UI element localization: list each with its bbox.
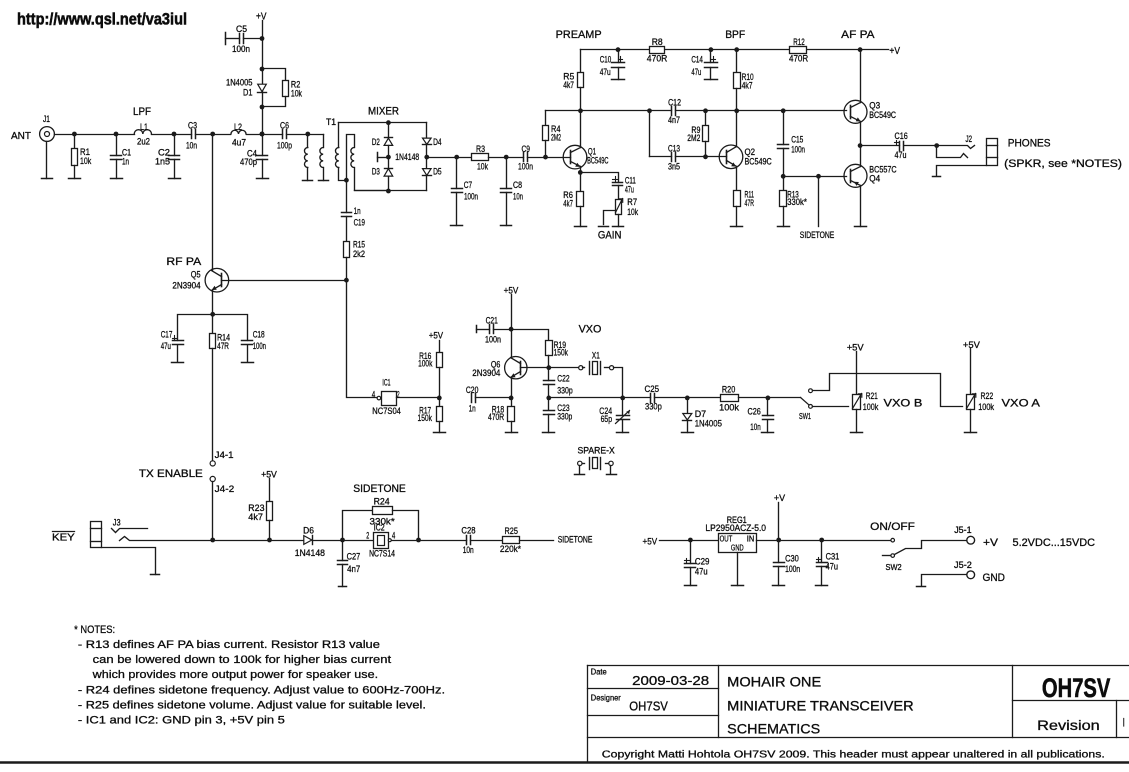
svg-text:D6: D6 [303, 525, 314, 536]
svg-text:4u7: 4u7 [232, 138, 246, 149]
svg-text:C5: C5 [236, 24, 247, 35]
svg-text:4: 4 [392, 531, 395, 542]
svg-text:J1: J1 [43, 114, 50, 125]
svg-text:C16: C16 [895, 131, 908, 142]
svg-text:C7: C7 [464, 180, 472, 191]
svg-text:R24: R24 [374, 496, 390, 507]
svg-text:4n7: 4n7 [347, 564, 360, 575]
svg-text:C18: C18 [253, 330, 265, 341]
svg-text:1N4148: 1N4148 [295, 548, 325, 559]
svg-text:SPARE-X: SPARE-X [578, 445, 615, 455]
svg-text:100n: 100n [232, 44, 250, 55]
svg-text:2: 2 [366, 531, 369, 542]
svg-text:47u: 47u [895, 150, 907, 161]
svg-text:2N3904: 2N3904 [172, 280, 200, 291]
svg-text:MIXER: MIXER [368, 106, 399, 118]
svg-text:C17: C17 [161, 330, 173, 341]
svg-text:C12: C12 [668, 98, 681, 109]
svg-text:J2: J2 [966, 134, 973, 145]
svg-text:10n: 10n [513, 192, 523, 203]
svg-text:C6: C6 [280, 121, 289, 132]
svg-text:can be lowered down to 100k fo: can be lowered down to 100k for higher b… [93, 654, 392, 666]
svg-text:IC1: IC1 [382, 378, 390, 389]
svg-text:47u: 47u [161, 341, 171, 352]
svg-text:C9: C9 [522, 144, 531, 155]
svg-text:VXO B: VXO B [884, 398, 923, 410]
svg-text:C22: C22 [557, 374, 569, 385]
svg-text:Designer: Designer [591, 693, 621, 702]
svg-text:C30: C30 [785, 553, 799, 564]
svg-text:10k: 10k [80, 156, 91, 167]
svg-text:L2: L2 [234, 122, 242, 133]
svg-text:J5-1: J5-1 [954, 525, 971, 536]
svg-text:OH7SV: OH7SV [1042, 673, 1111, 703]
svg-text:VXO: VXO [579, 324, 602, 336]
svg-text:C10: C10 [600, 54, 612, 65]
svg-text:10k: 10k [627, 207, 638, 218]
svg-text:PREAMP: PREAMP [556, 29, 602, 41]
svg-text:KEY: KEY [52, 532, 75, 543]
svg-text:D5: D5 [433, 167, 442, 178]
svg-text:AF PA: AF PA [841, 29, 875, 41]
svg-text:C3: C3 [188, 121, 197, 132]
svg-text:D3: D3 [372, 167, 380, 178]
svg-text:BC549C: BC549C [587, 156, 608, 167]
svg-text:Date: Date [591, 668, 607, 677]
svg-text:NC7S14: NC7S14 [369, 548, 395, 559]
svg-text:100n: 100n [253, 341, 266, 352]
svg-text:2M2: 2M2 [551, 133, 561, 144]
svg-text:47u: 47u [695, 566, 708, 577]
svg-text:470p: 470p [240, 157, 257, 168]
svg-text:C19: C19 [354, 217, 365, 228]
svg-text:BPF: BPF [725, 29, 745, 41]
svg-text:SIDETONE: SIDETONE [800, 230, 835, 241]
svg-text:4k7: 4k7 [563, 80, 574, 91]
svg-text:J3: J3 [113, 517, 121, 528]
svg-text:Copyright Matti Hohtola OH7SV: Copyright Matti Hohtola OH7SV 2009. This… [602, 749, 1105, 761]
svg-text:GAIN: GAIN [598, 230, 622, 242]
svg-text:100n: 100n [485, 334, 501, 345]
svg-text:330k*: 330k* [787, 197, 807, 208]
svg-text:47u: 47u [691, 67, 701, 78]
svg-text:* NOTES:: * NOTES: [74, 624, 115, 636]
svg-text:1n: 1n [354, 206, 361, 217]
svg-text:+5V: +5V [504, 285, 519, 296]
svg-text:+V: +V [774, 493, 786, 504]
svg-text:LP2950ACZ-5.0: LP2950ACZ-5.0 [705, 523, 766, 534]
svg-text:IN: IN [747, 534, 754, 544]
svg-text:SIDETONE: SIDETONE [558, 535, 593, 546]
svg-text:C27: C27 [347, 552, 361, 562]
svg-text:100p: 100p [277, 141, 292, 152]
svg-text:OH7SV: OH7SV [629, 700, 668, 714]
svg-text:- R13 defines AF PA bias curre: - R13 defines AF PA bias current. Resist… [78, 639, 380, 651]
svg-text:C21: C21 [486, 315, 498, 326]
svg-text:47u: 47u [600, 67, 611, 78]
svg-text:47R: 47R [217, 341, 229, 352]
svg-text:D4: D4 [433, 137, 442, 148]
svg-text:65p: 65p [601, 414, 613, 425]
svg-text:R3: R3 [476, 144, 485, 155]
svg-text:C14: C14 [691, 54, 703, 65]
svg-text:3n5: 3n5 [668, 162, 680, 173]
svg-text:C20: C20 [466, 385, 479, 396]
svg-text:(SPKR, see *NOTES): (SPKR, see *NOTES) [1004, 158, 1122, 170]
svg-text:1n: 1n [122, 157, 129, 168]
svg-text:1N4148: 1N4148 [395, 152, 419, 163]
svg-text:SW1: SW1 [799, 411, 811, 421]
svg-text:1n5: 1n5 [155, 157, 170, 168]
svg-text:47R: 47R [745, 198, 755, 209]
svg-text:R8: R8 [652, 37, 663, 48]
svg-text:2u2: 2u2 [137, 137, 150, 148]
svg-text:J4-2: J4-2 [215, 484, 235, 495]
svg-text:Revision: Revision [1037, 717, 1100, 733]
svg-text:2: 2 [397, 390, 400, 401]
svg-text:ON/OFF: ON/OFF [870, 521, 915, 533]
svg-text:C28: C28 [461, 525, 475, 536]
svg-text:150k: 150k [418, 413, 433, 424]
svg-text:10n: 10n [750, 422, 761, 433]
svg-text:150k: 150k [554, 347, 569, 358]
svg-text:100n: 100n [518, 162, 533, 173]
svg-text:220k*: 220k* [500, 544, 521, 555]
svg-text:47u: 47u [826, 561, 838, 572]
svg-text:470R: 470R [488, 412, 504, 423]
svg-text:GND: GND [731, 542, 744, 552]
svg-text:+V: +V [983, 537, 999, 549]
svg-text:2k2: 2k2 [353, 249, 365, 260]
svg-text:470R: 470R [789, 54, 808, 65]
svg-text:C25: C25 [645, 384, 660, 395]
svg-text:+5V: +5V [963, 340, 981, 351]
svg-text:330p: 330p [645, 402, 662, 413]
svg-text:SIDETONE: SIDETONE [353, 483, 406, 495]
svg-text:10k: 10k [291, 89, 302, 100]
svg-text:MOHAIR ONE: MOHAIR ONE [727, 675, 821, 690]
svg-text:10k: 10k [477, 162, 488, 173]
svg-text:R22: R22 [981, 391, 994, 402]
svg-text:ANT: ANT [11, 130, 32, 142]
svg-text:J5-2: J5-2 [954, 560, 972, 571]
svg-text:TX ENABLE: TX ENABLE [139, 468, 203, 480]
svg-text:D1: D1 [243, 88, 253, 99]
svg-text:GND: GND [983, 572, 1006, 584]
svg-text:+5V: +5V [643, 537, 658, 548]
svg-text:+V: +V [889, 46, 900, 57]
svg-text:5.2VDC...15VDC: 5.2VDC...15VDC [1013, 537, 1096, 549]
svg-text:1N4005: 1N4005 [695, 418, 722, 429]
svg-text:C8: C8 [513, 180, 522, 191]
svg-text:100k: 100k [978, 402, 994, 413]
svg-text:VXO A: VXO A [1002, 398, 1041, 410]
svg-text:330p: 330p [557, 411, 572, 422]
svg-text:100k: 100k [719, 402, 739, 413]
svg-text:which provides more output pow: which provides more output power for spe… [92, 669, 379, 681]
svg-text:R20: R20 [722, 384, 735, 395]
svg-text:PHONES: PHONES [1008, 138, 1051, 150]
svg-text:2N3904: 2N3904 [472, 368, 500, 379]
svg-text:SW2: SW2 [886, 562, 902, 572]
svg-text:+5V: +5V [429, 331, 444, 342]
svg-text:100n: 100n [464, 192, 478, 203]
svg-text:J4-1: J4-1 [215, 450, 234, 461]
svg-text:- R25 defines sidetone volume.: - R25 defines sidetone volume. Adjust va… [78, 699, 426, 711]
svg-text:MINIATURE TRANSCEIVER: MINIATURE TRANSCEIVER [727, 699, 914, 714]
svg-text:10n: 10n [463, 545, 474, 556]
svg-text:1n: 1n [469, 404, 476, 415]
svg-text:L1: L1 [140, 122, 148, 133]
svg-text:X1: X1 [592, 350, 600, 361]
svg-text:R12: R12 [793, 37, 805, 48]
svg-text:100k: 100k [418, 358, 432, 369]
svg-text:2009-03-28: 2009-03-28 [632, 674, 709, 688]
svg-text:BC549C: BC549C [869, 110, 896, 121]
svg-text:D2: D2 [372, 137, 380, 148]
svg-text:C13: C13 [668, 144, 680, 155]
svg-text:4k7: 4k7 [742, 81, 753, 92]
svg-text:47u: 47u [625, 184, 634, 195]
svg-text:100n: 100n [791, 144, 805, 155]
svg-text:10n: 10n [186, 141, 197, 152]
svg-text:NC7S04: NC7S04 [372, 406, 401, 417]
svg-text:Q4: Q4 [869, 174, 880, 185]
svg-text:R21: R21 [866, 391, 878, 402]
svg-text:C26: C26 [748, 407, 761, 418]
svg-text:SCHEMATICS: SCHEMATICS [727, 721, 820, 736]
svg-text:Q5: Q5 [191, 269, 201, 280]
svg-text:T1: T1 [326, 117, 336, 128]
svg-text:BC549C: BC549C [745, 156, 772, 167]
svg-text:R25: R25 [505, 526, 518, 537]
svg-text:2M2: 2M2 [687, 133, 700, 144]
svg-text:IC2: IC2 [374, 523, 385, 534]
svg-text:- IC1 and IC2: GND pin 3, +5V: - IC1 and IC2: GND pin 3, +5V pin 5 [78, 715, 285, 727]
svg-text:4n7: 4n7 [668, 115, 680, 126]
svg-text:+5V: +5V [847, 343, 865, 354]
svg-text:470R: 470R [647, 54, 668, 65]
svg-text:- R24 defines sidetone frequen: - R24 defines sidetone frequency. Adjust… [78, 684, 445, 696]
svg-text:+V: +V [256, 12, 267, 23]
svg-text:http://www.qsl.net/va3iul: http://www.qsl.net/va3iul [17, 11, 187, 29]
svg-text:LPF: LPF [133, 106, 151, 118]
svg-text:100n: 100n [785, 564, 800, 575]
svg-text:+5V: +5V [261, 470, 277, 481]
svg-text:I: I [1123, 715, 1125, 729]
svg-text:4: 4 [372, 389, 376, 400]
svg-text:RF PA: RF PA [166, 256, 202, 268]
svg-text:4k7: 4k7 [248, 512, 263, 523]
svg-text:4k7: 4k7 [563, 198, 573, 209]
svg-text:100k: 100k [863, 402, 879, 413]
svg-text:330p: 330p [557, 385, 572, 396]
